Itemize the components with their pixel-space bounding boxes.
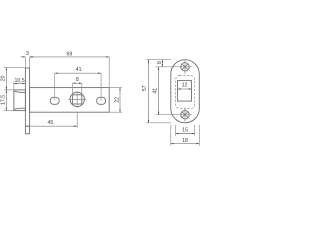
svg-text:3: 3 bbox=[26, 51, 29, 57]
svg-text:22: 22 bbox=[114, 97, 120, 103]
svg-text:8: 8 bbox=[157, 61, 163, 64]
svg-text:41: 41 bbox=[152, 88, 158, 94]
svg-text:12: 12 bbox=[182, 82, 188, 88]
svg-text:45: 45 bbox=[48, 120, 54, 126]
svg-text:8: 8 bbox=[76, 77, 79, 83]
svg-text:15: 15 bbox=[182, 127, 188, 133]
svg-text:41: 41 bbox=[76, 67, 82, 73]
svg-text:57: 57 bbox=[142, 85, 148, 91]
svg-text:20: 20 bbox=[1, 75, 7, 81]
svg-text:18: 18 bbox=[182, 138, 188, 144]
svg-text:69: 69 bbox=[67, 51, 73, 57]
svg-text:17,5: 17,5 bbox=[1, 95, 7, 105]
svg-text:10,5: 10,5 bbox=[15, 78, 25, 84]
